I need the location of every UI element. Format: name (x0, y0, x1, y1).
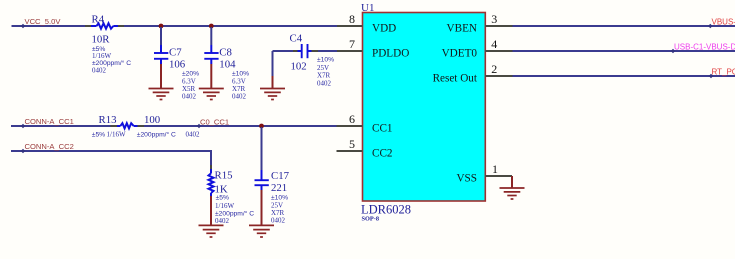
IC U1 LDR6028 (361, 2, 485, 223)
svg-text:106: 106 (169, 58, 186, 70)
svg-text:2: 2 (491, 62, 497, 76)
pin 3 stub (485, 12, 512, 26)
net label VBUS-EN (708, 18, 735, 29)
ground below C4 (260, 89, 285, 100)
wire pin4 to USB-C1-VBUS-DET (513, 50, 735, 52)
resistor R15 vertical (209, 170, 255, 226)
svg-text:PDLDO: PDLDO (372, 48, 409, 60)
svg-text:C0_CC1: C0_CC1 (200, 118, 229, 127)
resistor R4 (92, 14, 132, 75)
svg-text:X7R: X7R (317, 72, 331, 80)
junction node at C8 (209, 24, 214, 29)
svg-text:4: 4 (491, 37, 497, 51)
wire R15 to ground (210, 193, 212, 225)
svg-text:R15: R15 (215, 170, 233, 182)
wire CONN-A_CC2 row (11, 151, 211, 173)
net label USB-C1-VBUS-DET (671, 43, 735, 54)
svg-text:7: 7 (349, 37, 355, 51)
capacitor C8 (204, 47, 249, 101)
wire C17 drop (261, 127, 263, 225)
svg-text:1/16W: 1/16W (215, 202, 234, 210)
pin 7 stub (337, 37, 363, 51)
svg-text:R13: R13 (99, 114, 117, 126)
svg-text:VDD: VDD (372, 23, 396, 35)
svg-text:±10%: ±10% (271, 195, 288, 202)
svg-text:0402: 0402 (182, 93, 197, 101)
svg-text:104: 104 (219, 58, 236, 70)
net label C0_CC1 (197, 118, 229, 129)
svg-text:8: 8 (349, 12, 355, 26)
svg-text:±5%: ±5% (92, 132, 105, 139)
ground below C7 (149, 89, 174, 100)
net label RT_PCB (709, 68, 735, 79)
ground below C17 (249, 225, 274, 237)
svg-text:USB-C1-VBUS-DET: USB-C1-VBUS-DET (674, 43, 735, 52)
svg-text:100: 100 (144, 114, 160, 126)
svg-text:C4: C4 (290, 33, 303, 45)
svg-text:VSS: VSS (456, 173, 477, 185)
svg-text:VBUS-EN: VBUS-EN (712, 18, 735, 27)
junction node at C17 (259, 124, 264, 129)
svg-text:0402: 0402 (271, 217, 286, 225)
svg-text:1: 1 (492, 162, 498, 176)
ground below C8 (199, 89, 224, 100)
net label VCC_5.0V (21, 17, 62, 28)
svg-text:LDR6028: LDR6028 (361, 203, 411, 217)
wire C7 drop (160, 27, 162, 89)
svg-text:X7R: X7R (232, 85, 246, 93)
svg-text:C17: C17 (271, 170, 290, 182)
svg-text:U1: U1 (361, 2, 374, 14)
pin 5 stub (337, 137, 363, 151)
wire pin2 to RT_PCB (513, 75, 735, 77)
svg-text:CONN-A_CC2: CONN-A_CC2 (25, 142, 74, 151)
svg-text:0402: 0402 (317, 79, 332, 87)
svg-text:±10%: ±10% (317, 57, 334, 64)
svg-text:VBEN: VBEN (447, 23, 477, 35)
wire CONN-A_CC1 row (11, 125, 337, 127)
svg-text:5: 5 (349, 137, 355, 151)
svg-text:0402: 0402 (186, 131, 201, 139)
svg-text:10R: 10R (92, 34, 111, 46)
pin 8 stub (337, 12, 363, 26)
svg-text:0402: 0402 (92, 66, 107, 74)
svg-text:0402: 0402 (215, 217, 230, 225)
ground at VSS (500, 188, 525, 199)
svg-text:VCC_5.0V: VCC_5.0V (25, 17, 62, 26)
pin 6 stub (337, 112, 363, 126)
junction node at C7 (159, 24, 164, 29)
svg-text:RT_PCB: RT_PCB (712, 68, 735, 77)
svg-text:VDET0: VDET0 (442, 48, 478, 60)
svg-text:CC2: CC2 (372, 148, 393, 160)
svg-text:C7: C7 (169, 47, 182, 59)
svg-text:1/16W: 1/16W (107, 131, 126, 139)
svg-text:6: 6 (349, 112, 355, 126)
svg-text:102: 102 (291, 61, 307, 73)
svg-text:SOP-8: SOP-8 (362, 216, 380, 223)
svg-text:1/16W: 1/16W (92, 52, 111, 60)
wire VCC_5.0V horizontal (12, 25, 338, 27)
svg-text:221: 221 (271, 182, 287, 194)
svg-text:±200ppm/° C: ±200ppm/° C (137, 131, 176, 139)
capacitor C4 (290, 33, 335, 88)
svg-text:Reset Out: Reset Out (433, 73, 478, 85)
net label CONN-A_CC1 (21, 117, 74, 128)
wire C4 row pin7 (273, 51, 338, 89)
capacitor C17 (255, 170, 290, 225)
net label CONN-A_CC2 (21, 142, 74, 153)
pin 1 stub VSS (485, 162, 512, 188)
capacitor C7 (154, 47, 199, 101)
ground below R15 (199, 225, 224, 237)
svg-text:R4: R4 (92, 14, 105, 26)
svg-text:±5%: ±5% (216, 195, 229, 202)
svg-text:CC1: CC1 (372, 123, 393, 135)
wire pin3 to VBUS (513, 25, 735, 27)
svg-text:X5R: X5R (182, 85, 196, 93)
pin 4 stub (485, 37, 512, 51)
svg-text:0402: 0402 (232, 93, 247, 101)
svg-text:C8: C8 (219, 47, 232, 59)
svg-text:3: 3 (491, 12, 497, 26)
pin 2 stub (485, 62, 512, 76)
wire C8 drop (210, 27, 212, 89)
resistor R13 (92, 114, 200, 139)
svg-text:CONN-A_CC1: CONN-A_CC1 (25, 117, 74, 126)
